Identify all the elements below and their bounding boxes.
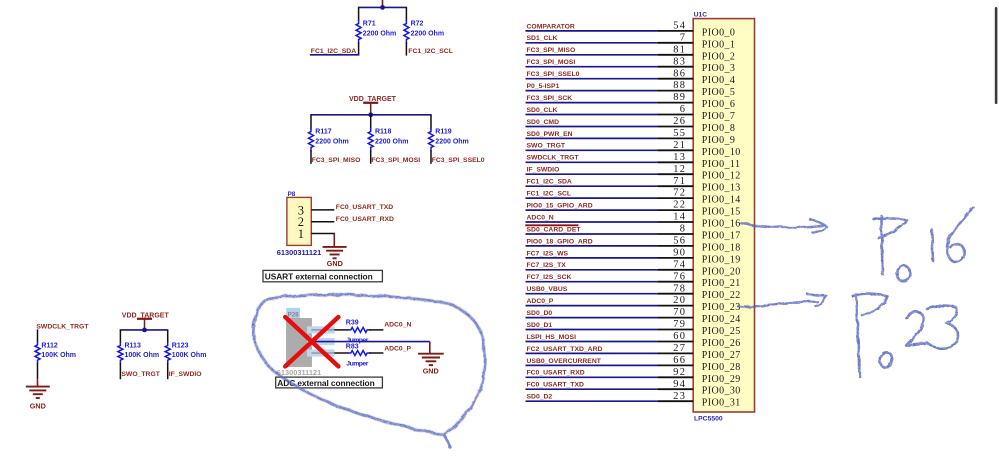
svg-text:FC3_SPI_SCK: FC3_SPI_SCK <box>527 95 573 102</box>
wire net IF_SWDIO <box>526 173 659 175</box>
annotation handwritten P023 <box>853 294 959 376</box>
svg-text:PIO0_16: PIO0_16 <box>702 219 741 230</box>
svg-text:R39: R39 <box>346 320 359 327</box>
svg-text:GND: GND <box>30 402 46 411</box>
svg-text:PIO0_5: PIO0_5 <box>702 87 736 98</box>
svg-text:USB0_OVERCURRENT: USB0_OVERCURRENT <box>527 358 602 365</box>
svg-text:83: 83 <box>673 56 686 67</box>
wire net SD0_CLK <box>526 114 659 116</box>
pin 6 PIO0_7 <box>658 114 693 116</box>
svg-text:100K Ohm: 100K Ohm <box>41 352 76 359</box>
svg-text:PIO0_20: PIO0_20 <box>702 266 741 277</box>
svg-text:55: 55 <box>673 128 686 139</box>
svg-text:COMPARATOR: COMPARATOR <box>527 23 575 30</box>
annotation pen tail <box>444 435 450 447</box>
svg-text:FC3_SPI_SSEL0: FC3_SPI_SSEL0 <box>527 71 580 78</box>
svg-text:FC7_I2S_WS: FC7_I2S_WS <box>527 250 569 257</box>
svg-text:PIO0_30: PIO0_30 <box>702 386 741 397</box>
pin 90 PIO0_19 <box>658 257 693 259</box>
svg-text:SWDCLK_TRGT: SWDCLK_TRGT <box>527 155 580 162</box>
svg-text:81: 81 <box>673 44 686 55</box>
svg-text:2200 Ohm: 2200 Ohm <box>363 30 396 37</box>
svg-text:FC1_I2C_SCL: FC1_I2C_SCL <box>408 48 453 55</box>
svg-text:PIO0_18: PIO0_18 <box>702 242 741 253</box>
svg-text:ADC0_P: ADC0_P <box>527 298 554 305</box>
svg-text:2200 Ohm: 2200 Ohm <box>315 138 348 145</box>
svg-text:SD0_CLK: SD0_CLK <box>527 107 558 114</box>
svg-text:79: 79 <box>673 319 686 330</box>
wire net SD0_D1 <box>526 329 659 331</box>
svg-text:PIO0_22: PIO0_22 <box>702 290 741 301</box>
label USART external connection <box>263 270 382 281</box>
svg-text:78: 78 <box>673 283 686 294</box>
svg-text:PIO0_6: PIO0_6 <box>702 99 736 110</box>
wire net SD0_D0 <box>526 317 659 319</box>
pin 14 PIO0_16 <box>658 221 693 223</box>
pin 78 PIO0_22 <box>658 293 693 295</box>
wire VDD rail <box>310 114 431 116</box>
svg-text:SWO_TRGT: SWO_TRGT <box>527 143 566 150</box>
svg-text:PIO0_10: PIO0_10 <box>702 147 741 158</box>
resistor R118 <box>368 115 408 164</box>
svg-text:60: 60 <box>673 331 686 342</box>
wire R71/R72 top rail <box>358 6 407 8</box>
wire net SD0_PWR_EN <box>526 137 659 139</box>
svg-text:2200 Ohm: 2200 Ohm <box>411 30 444 37</box>
ground GND (ADC) <box>418 342 444 376</box>
resistor R123 <box>165 330 206 379</box>
svg-text:FC1_I2C_SDA: FC1_I2C_SDA <box>527 179 572 186</box>
svg-text:ADC0_P: ADC0_P <box>384 346 411 353</box>
svg-text:PIO0_31: PIO0_31 <box>702 398 741 409</box>
annotation handwritten P016 <box>874 208 974 281</box>
svg-text:21: 21 <box>673 140 686 151</box>
svg-text:23: 23 <box>673 391 686 402</box>
svg-text:R113: R113 <box>125 342 141 349</box>
svg-text:PIO0_25: PIO0_25 <box>702 326 741 337</box>
pin 22 PIO0_15 <box>658 209 693 211</box>
svg-text:FC1_I2C_SDA: FC1_I2C_SDA <box>311 48 356 55</box>
svg-text:61300311121: 61300311121 <box>277 248 321 257</box>
svg-text:PIO0_28: PIO0_28 <box>702 362 741 373</box>
wire net FC1_I2C_SDA <box>526 185 659 187</box>
pin 12 PIO0_12 <box>658 173 693 175</box>
svg-text:SD0_D1: SD0_D1 <box>527 322 553 329</box>
scrollbar thumb <box>995 7 998 104</box>
svg-text:FC3_SPI_SSEL0: FC3_SPI_SSEL0 <box>432 157 485 164</box>
svg-text:PIO0_29: PIO0_29 <box>702 374 741 385</box>
svg-text:71: 71 <box>673 176 686 187</box>
junction top rail <box>380 5 385 10</box>
svg-text:13: 13 <box>673 152 686 163</box>
power VDD_TARGET (SWD) <box>122 312 170 330</box>
pin 56 PIO0_18 <box>658 245 693 247</box>
chip U1C body <box>693 19 754 412</box>
pin 60 PIO0_26 <box>658 341 693 343</box>
svg-text:R72: R72 <box>411 21 424 28</box>
svg-text:61300311121: 61300311121 <box>277 368 321 377</box>
wire VDD stub to R71/R72 rail <box>382 0 384 7</box>
ground GND (R112) <box>26 379 50 410</box>
svg-text:IF_SWDIO: IF_SWDIO <box>527 167 560 174</box>
svg-text:FC3_SPI_MOSI: FC3_SPI_MOSI <box>371 157 420 164</box>
pin highlight P28.3 <box>307 326 335 333</box>
wire net ADC0_P <box>526 305 659 307</box>
svg-text:FC3_SPI_MOSI: FC3_SPI_MOSI <box>527 59 576 66</box>
wire P28.2 to GND <box>311 341 429 343</box>
resistor R113 <box>118 330 159 379</box>
svg-text:72: 72 <box>673 188 686 199</box>
svg-text:PIO0_15: PIO0_15 <box>702 207 741 218</box>
svg-text:ADC0_N: ADC0_N <box>527 214 554 221</box>
svg-text:2200 Ohm: 2200 Ohm <box>375 138 408 145</box>
wire net PIO0_18_GPIO_ARD <box>526 245 659 247</box>
connector P28 (dimmed selection) <box>286 308 311 367</box>
svg-text:PIO0_8: PIO0_8 <box>702 123 736 134</box>
wire net FC2_USART_TXD_ARD <box>526 352 659 354</box>
wire SWD rail <box>120 329 169 331</box>
pin 1 <box>311 233 335 235</box>
wire stub ADC0_N (red) <box>525 224 578 226</box>
pin P28.3 (dimmed) <box>311 329 334 331</box>
wire net FC1_I2C_SCL <box>526 197 659 199</box>
pin 55 PIO0_9 <box>658 137 693 139</box>
wire net FC7_I2S_WS <box>526 257 659 259</box>
svg-text:FC3_SPI_MISO: FC3_SPI_MISO <box>527 47 576 54</box>
svg-text:PIO0_19: PIO0_19 <box>702 254 741 265</box>
svg-text:8: 8 <box>680 224 687 235</box>
svg-text:PIO0_2: PIO0_2 <box>702 51 736 62</box>
svg-text:PIO0_3: PIO0_3 <box>702 63 736 74</box>
svg-text:1: 1 <box>298 227 304 241</box>
svg-text:R117: R117 <box>315 129 331 136</box>
junction VDD rail <box>368 112 373 117</box>
svg-text:54: 54 <box>673 21 686 32</box>
wire net FC3_SPI_MISO <box>526 54 659 56</box>
wire net FC0_USART_RXD <box>526 376 659 378</box>
pin 26 PIO0_8 <box>658 126 693 128</box>
pin 79 PIO0_25 <box>658 329 693 331</box>
pin 71 PIO0_13 <box>658 185 693 187</box>
pin 20 PIO0_23 <box>658 305 693 307</box>
svg-text:2200 Ohm: 2200 Ohm <box>435 138 468 145</box>
svg-text:70: 70 <box>673 307 686 318</box>
wire net LSPI_HS_MOSI <box>526 341 659 343</box>
pin 27 PIO0_27 <box>658 352 693 354</box>
wire net SWDCLK_TRGT <box>526 161 659 163</box>
svg-text:12: 12 <box>673 164 686 175</box>
svg-text:FC3_SPI_MISO: FC3_SPI_MISO <box>312 157 361 164</box>
resistor R83 <box>334 343 383 367</box>
svg-text:86: 86 <box>673 68 686 79</box>
svg-text:22: 22 <box>673 200 686 211</box>
svg-text:66: 66 <box>673 355 686 366</box>
svg-text:P0_5-ISP1: P0_5-ISP1 <box>527 83 560 90</box>
svg-text:PIO0_1: PIO0_1 <box>702 39 736 50</box>
annotation arrow to PIO0_16 <box>740 223 823 228</box>
svg-text:FC0_USART_TXD: FC0_USART_TXD <box>336 204 393 211</box>
wire net FC3_SPI_SSEL0 <box>526 78 659 80</box>
wire net FC3_SPI_MOSI <box>526 66 659 68</box>
svg-text:PIO0_12: PIO0_12 <box>702 171 741 182</box>
resistor R72 <box>404 7 444 55</box>
svg-text:PIO0_9: PIO0_9 <box>702 135 736 146</box>
svg-text:PIO0_17: PIO0_17 <box>702 231 741 242</box>
wire net SD0_D2 <box>526 400 659 402</box>
pin 94 PIO0_30 <box>658 388 693 390</box>
svg-text:PIO0_0: PIO0_0 <box>702 27 736 38</box>
svg-text:PIO0_11: PIO0_11 <box>702 159 741 170</box>
svg-text:PIO0_15_GPIO_ARD: PIO0_15_GPIO_ARD <box>527 203 593 210</box>
svg-text:6: 6 <box>680 104 687 115</box>
wire net FC7_I2S_SCK <box>526 281 659 283</box>
svg-text:PIO0_18_GPIO_ARD: PIO0_18_GPIO_ARD <box>527 238 593 245</box>
wire net SD1_CLK <box>526 42 659 44</box>
svg-text:R71: R71 <box>363 21 376 28</box>
svg-text:76: 76 <box>673 271 686 282</box>
resistor R39 <box>334 320 383 344</box>
power VDD_TARGET (top) <box>349 96 397 115</box>
wire net PIO0_15_GPIO_ARD <box>526 209 659 211</box>
wire net ADC0_N <box>526 221 659 223</box>
svg-text:PIO0_23: PIO0_23 <box>702 302 741 313</box>
pin 70 PIO0_24 <box>658 317 693 319</box>
pin 8 PIO0_17 <box>658 233 693 235</box>
pin 2 <box>311 221 334 223</box>
svg-text:Jumper: Jumper <box>346 360 368 367</box>
svg-text:USART external connection: USART external connection <box>265 272 373 282</box>
pin highlight P28.2 <box>307 338 335 345</box>
pin 89 PIO0_6 <box>658 102 693 104</box>
svg-text:PIO0_4: PIO0_4 <box>702 75 736 86</box>
svg-text:PIO0_14: PIO0_14 <box>702 195 741 206</box>
pin 7 PIO0_1 <box>658 42 693 44</box>
svg-text:R118: R118 <box>375 129 391 136</box>
svg-text:90: 90 <box>673 248 686 259</box>
svg-text:SWO_TRGT: SWO_TRGT <box>121 371 160 378</box>
connector P8 <box>287 191 335 245</box>
wire net USB0_OVERCURRENT <box>526 364 659 366</box>
annotation circle around ADC connection <box>253 295 484 435</box>
svg-text:SD0_PWR_EN: SD0_PWR_EN <box>527 131 573 138</box>
svg-text:PIO0_21: PIO0_21 <box>702 278 741 289</box>
svg-text:PIO0_13: PIO0_13 <box>702 183 741 194</box>
svg-text:56: 56 <box>673 236 686 247</box>
svg-text:PIO0_24: PIO0_24 <box>702 314 741 325</box>
svg-text:SD0_D2: SD0_D2 <box>527 394 553 401</box>
svg-text:FC7_I2S_SCK: FC7_I2S_SCK <box>527 274 572 281</box>
svg-text:PIO0_7: PIO0_7 <box>702 111 736 122</box>
label ADC external connection <box>276 377 383 388</box>
svg-text:R119: R119 <box>435 129 451 136</box>
svg-text:PIO0_26: PIO0_26 <box>702 338 741 349</box>
svg-text:SWDCLK_TRGT: SWDCLK_TRGT <box>36 323 89 330</box>
pin 81 PIO0_2 <box>658 54 693 56</box>
svg-text:27: 27 <box>673 343 686 354</box>
svg-text:ADC0_N: ADC0_N <box>384 322 411 329</box>
svg-text:USB0_VBUS: USB0_VBUS <box>527 286 568 293</box>
wire net FC3_SPI_SCK <box>526 102 659 104</box>
pin 23 PIO0_31 <box>658 400 693 402</box>
wire net SD0_CMD <box>526 126 659 128</box>
svg-text:20: 20 <box>673 295 686 306</box>
ground GND (P8) <box>323 234 347 269</box>
svg-text:SD1_CLK: SD1_CLK <box>527 35 558 42</box>
pin 54 PIO0_0 <box>658 30 693 32</box>
pin 88 PIO0_5 <box>658 90 693 92</box>
svg-text:89: 89 <box>673 92 686 103</box>
svg-text:94: 94 <box>673 379 686 390</box>
resistor R71 <box>356 7 396 54</box>
pin 72 PIO0_14 <box>658 197 693 199</box>
resistor R119 <box>429 115 469 164</box>
svg-text:R112: R112 <box>41 342 57 349</box>
svg-text:100K Ohm: 100K Ohm <box>125 352 160 359</box>
svg-text:LPC5500: LPC5500 <box>694 416 723 423</box>
svg-text:PIO0_27: PIO0_27 <box>702 350 741 361</box>
wire net SWO_TRGT <box>526 149 659 151</box>
svg-text:SD0_D0: SD0_D0 <box>527 310 553 317</box>
svg-text:FC1_I2C_SCL: FC1_I2C_SCL <box>527 191 572 198</box>
svg-text:R123: R123 <box>172 342 189 349</box>
wire FC1_I2C_SDA <box>310 53 359 55</box>
wire net P0_5-ISP1 <box>526 90 659 92</box>
svg-text:92: 92 <box>673 367 686 378</box>
wire net SD0_CARD_DET <box>526 233 659 235</box>
annotation red X over P28 <box>285 317 338 366</box>
wire net FC0_USART_TXD <box>526 388 659 390</box>
svg-text:74: 74 <box>673 259 686 270</box>
pin 92 PIO0_29 <box>658 376 693 378</box>
pin P28.1 (dimmed) <box>311 352 334 354</box>
pin 74 PIO0_20 <box>658 269 693 271</box>
pin 76 PIO0_21 <box>658 281 693 283</box>
pin 66 PIO0_28 <box>658 364 693 366</box>
pin highlight P28.1 <box>307 349 335 356</box>
svg-text:7: 7 <box>680 32 687 43</box>
svg-text:SD0_CARD_DET: SD0_CARD_DET <box>527 226 582 233</box>
svg-text:SD0_CMD: SD0_CMD <box>527 119 560 126</box>
svg-text:P28: P28 <box>288 311 300 318</box>
junction SWD rail <box>142 328 147 333</box>
wire net USB0_VBUS <box>526 293 659 295</box>
svg-text:FC0_USART_RXD: FC0_USART_RXD <box>336 216 394 223</box>
svg-text:FC0_USART_TXD: FC0_USART_TXD <box>527 382 584 389</box>
svg-text:R83: R83 <box>346 343 359 350</box>
pin 83 PIO0_3 <box>658 66 693 68</box>
svg-text:14: 14 <box>673 212 686 223</box>
svg-text:FC2_USART_TXD_ARD: FC2_USART_TXD_ARD <box>527 346 603 353</box>
wire net FC7_I2S_TX <box>526 269 659 271</box>
pin 86 PIO0_4 <box>658 78 693 80</box>
svg-text:LSPI_HS_MOSI: LSPI_HS_MOSI <box>527 334 577 341</box>
svg-text:GND: GND <box>327 259 343 268</box>
svg-text:88: 88 <box>673 80 686 91</box>
svg-text:U1C: U1C <box>694 12 707 19</box>
svg-text:FC0_USART_RXD: FC0_USART_RXD <box>527 370 585 377</box>
pin 3 <box>311 209 334 211</box>
pin 13 PIO0_11 <box>658 161 693 163</box>
svg-text:GND: GND <box>423 367 439 376</box>
svg-text:FC7_I2S_TX: FC7_I2S_TX <box>527 262 567 269</box>
annotation arrow to PIO0_23 <box>738 301 817 306</box>
resistor R117 <box>309 115 349 164</box>
resistor R112 <box>35 329 76 379</box>
svg-text:IF_SWDIO: IF_SWDIO <box>169 371 202 378</box>
svg-text:26: 26 <box>673 116 686 127</box>
svg-text:100K Ohm: 100K Ohm <box>172 352 207 359</box>
pin 21 PIO0_10 <box>658 149 693 151</box>
wire net COMPARATOR <box>526 30 659 32</box>
